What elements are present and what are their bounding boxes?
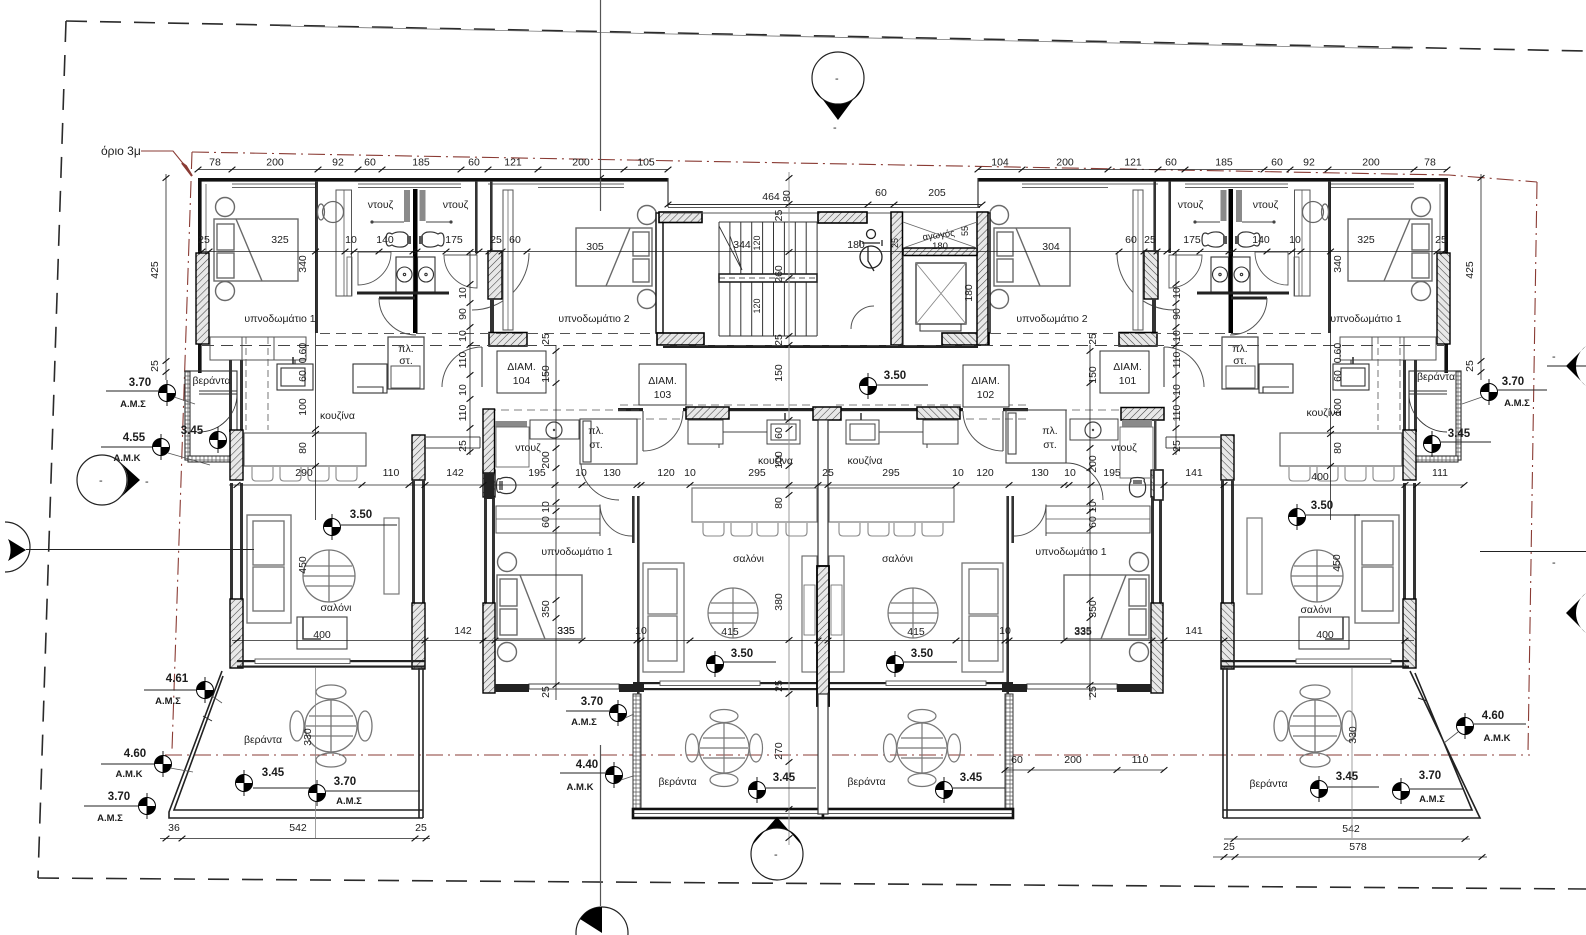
salon apt104 walls — [230, 483, 233, 663]
svg-text:-: - — [1552, 351, 1556, 363]
elevation markers — [159, 380, 176, 406]
svg-text:10: 10 — [952, 467, 964, 479]
center axis x=789 — [788, 172, 790, 845]
veranda apt101 trapezoid — [1223, 668, 1480, 818]
apt103 kitchen counters — [688, 420, 800, 448]
svg-text:25: 25 — [773, 210, 785, 222]
DIAM102 box — [963, 365, 1009, 407]
svg-text:121: 121 — [1124, 157, 1142, 169]
party wall between 103/102 — [813, 407, 841, 420]
pedestal basin — [318, 202, 344, 223]
svg-text:130: 130 — [603, 467, 621, 479]
svg-text:185: 185 — [412, 157, 430, 169]
svg-text:141: 141 — [1185, 625, 1203, 637]
svg-text:3.50: 3.50 — [911, 648, 933, 660]
svg-text:πλ.: πλ. — [398, 343, 413, 355]
bedroom2 closet — [503, 190, 513, 330]
svg-text:Α.Μ.Κ: Α.Μ.Κ — [116, 769, 143, 780]
counter right of pier — [425, 437, 480, 448]
apt103 bedroom window bottom — [529, 684, 619, 689]
hatched pier left wall — [196, 253, 209, 344]
stair direction line — [719, 226, 742, 270]
svg-text:υπνοδωμάτιο 1: υπνοδωμάτιο 1 — [244, 313, 315, 325]
DIAM103 box — [639, 364, 686, 405]
svg-text:344: 344 — [733, 239, 751, 251]
left wall lower w/ window — [229, 360, 232, 432]
round table apt104 — [303, 550, 355, 602]
svg-text:120: 120 — [976, 467, 994, 479]
svg-text:304: 304 — [1042, 241, 1060, 253]
svg-text:60: 60 — [773, 427, 785, 439]
right edge arrows — [1547, 365, 1586, 367]
svg-text:όριο 3μ: όριο 3μ — [101, 144, 141, 158]
interior dim line y=251.5 — [198, 251, 1448, 253]
washing closet pl.st. — [388, 337, 424, 389]
elevator car — [916, 263, 966, 324]
corridor hatched bar — [489, 333, 527, 347]
svg-text:10: 10 — [1171, 384, 1183, 396]
svg-text:σαλόνι: σαλόνι — [1300, 604, 1332, 616]
svg-text:60: 60 — [1271, 157, 1283, 169]
top section circle — [812, 52, 864, 104]
svg-text:150: 150 — [1087, 366, 1099, 384]
lobby door arc — [851, 306, 874, 329]
svg-text:10: 10 — [457, 384, 469, 396]
svg-text:υπνοδωμάτιο 2: υπνοδωμάτιο 2 — [1016, 313, 1087, 325]
svg-text:25: 25 — [1223, 841, 1235, 853]
svg-text:290: 290 — [295, 467, 313, 479]
apt103 entry door — [642, 411, 644, 451]
tv stand 400 — [297, 617, 347, 649]
dashed upper-cabinet lines kitchen — [246, 337, 268, 430]
svg-text:Α.Μ.Σ: Α.Μ.Σ — [1504, 398, 1530, 409]
armchair right — [384, 518, 399, 594]
svg-text:25: 25 — [1087, 686, 1099, 698]
middle veranda table — [686, 710, 763, 787]
stairs — [719, 222, 817, 336]
svg-text:200: 200 — [1087, 455, 1099, 473]
svg-text:στ.: στ. — [589, 439, 603, 451]
svg-text:ντουζ: ντουζ — [1111, 442, 1137, 454]
svg-text:185: 185 — [1215, 157, 1233, 169]
svg-text:Α.Μ.Σ: Α.Μ.Σ — [336, 796, 362, 807]
apt103 salon: dining table — [692, 488, 817, 522]
svg-text:στ.: στ. — [1233, 355, 1247, 367]
svg-text:κουζίνα: κουζίνα — [320, 410, 355, 422]
svg-text:βεράντα: βεράντα — [658, 776, 696, 788]
svg-text:130: 130 — [1031, 467, 1049, 479]
shower apt102 — [1122, 420, 1152, 427]
west veranda — [185, 371, 237, 462]
svg-text:325: 325 — [271, 234, 289, 246]
apt103 bed — [497, 553, 582, 662]
svg-text:400: 400 — [1316, 629, 1334, 641]
svg-text:92: 92 — [332, 157, 344, 169]
svg-text:55: 55 — [960, 226, 970, 236]
hatched pier A — [412, 435, 425, 480]
svg-text:330: 330 — [1347, 726, 1359, 744]
svg-text:25: 25 — [198, 234, 210, 246]
svg-text:25: 25 — [1464, 360, 1476, 372]
svg-text:140: 140 — [1252, 234, 1270, 246]
svg-text:200: 200 — [540, 451, 552, 469]
svg-text:3.45: 3.45 — [960, 772, 983, 784]
svg-text:ντουζ: ντουζ — [515, 442, 541, 454]
svg-text:60: 60 — [468, 157, 480, 169]
svg-text:450: 450 — [1331, 554, 1343, 572]
svg-text:κουζίνα: κουζίνα — [848, 455, 883, 467]
svg-text:110: 110 — [457, 351, 469, 368]
svg-text:103: 103 — [654, 389, 672, 401]
vertical dim x=1176 — [1175, 252, 1177, 455]
DIAM104 box — [497, 351, 546, 393]
svg-text:110: 110 — [1171, 351, 1183, 368]
core top-left hatched block — [659, 212, 702, 223]
wall right of WC apt102 — [1154, 470, 1163, 500]
svg-text:25: 25 — [540, 333, 552, 345]
svg-text:60: 60 — [1125, 234, 1137, 246]
svg-text:578: 578 — [1349, 841, 1367, 853]
svg-text:3.45: 3.45 — [262, 767, 285, 779]
svg-text:150: 150 — [773, 364, 785, 382]
apt103 round table — [708, 588, 758, 638]
svg-text:200: 200 — [1056, 157, 1074, 169]
top dimension line — [198, 169, 668, 171]
svg-text:πλ.: πλ. — [588, 425, 603, 437]
shower apt103 — [495, 421, 527, 427]
svg-text:295: 295 — [882, 467, 900, 479]
svg-text:10: 10 — [1171, 330, 1183, 342]
svg-text:450: 450 — [297, 556, 309, 574]
svg-text:200: 200 — [572, 157, 590, 169]
vertical axis x=600 top — [600, 0, 602, 211]
svg-text:βεράντα: βεράντα — [1417, 371, 1455, 383]
bottom dims right veranda — [1224, 838, 1470, 840]
svg-text:101: 101 — [1119, 375, 1137, 387]
svg-text:3.70: 3.70 — [334, 776, 356, 788]
svg-text:στ.: στ. — [399, 355, 413, 367]
svg-text:80: 80 — [781, 190, 793, 202]
svg-text:25: 25 — [1144, 234, 1156, 246]
corridor cabinets row — [210, 337, 306, 360]
svg-text:10: 10 — [1064, 467, 1076, 479]
svg-text:υπνοδωμάτιο 1: υπνοδωμάτιο 1 — [541, 546, 612, 558]
bedroom1 right wall — [315, 181, 318, 333]
svg-text:60: 60 — [297, 370, 309, 382]
svg-text:121: 121 — [504, 157, 522, 169]
svg-text:κουζίνα: κουζίνα — [1307, 407, 1342, 419]
core top edge line — [668, 205, 980, 208]
svg-text:25: 25 — [1087, 333, 1099, 345]
svg-text:25: 25 — [773, 334, 785, 346]
entry door apt104 — [481, 347, 483, 387]
svg-text:σαλόνι: σαλόνι — [882, 553, 914, 565]
svg-text:3.45: 3.45 — [773, 772, 796, 784]
svg-text:60: 60 — [540, 516, 552, 528]
center vertical dim x=789 labels — [773, 190, 793, 760]
svg-text:10: 10 — [1171, 287, 1183, 299]
svg-text:-: - — [774, 849, 778, 861]
toilet apt103 — [497, 477, 517, 493]
svg-text:110: 110 — [383, 467, 400, 479]
svg-text:400: 400 — [313, 629, 331, 641]
svg-text:3.45: 3.45 — [1448, 428, 1471, 440]
svg-text:305: 305 — [586, 241, 604, 253]
bathroom door arcs — [358, 252, 529, 335]
svg-text:-: - — [835, 73, 839, 85]
svg-text:100: 100 — [297, 398, 309, 416]
corridor dashed lines — [202, 345, 1444, 347]
svg-text:111: 111 — [1432, 467, 1448, 479]
svg-text:-: - — [99, 475, 103, 487]
svg-text:πλ.: πλ. — [1042, 425, 1057, 437]
svg-text:25: 25 — [1171, 440, 1183, 452]
core bottom-left hatched block — [657, 333, 704, 345]
svg-text:10: 10 — [457, 287, 469, 299]
bottom middle section circle — [751, 828, 803, 880]
svg-text:10: 10 — [575, 467, 587, 479]
svg-text:340: 340 — [297, 255, 309, 273]
svg-text:0.60: 0.60 — [1332, 343, 1344, 364]
svg-text:4.60: 4.60 — [1482, 710, 1504, 722]
bathroom bottom walls — [357, 292, 449, 295]
bedroom2 bed 305 — [576, 206, 657, 309]
svg-text:25: 25 — [822, 467, 834, 479]
svg-text:25: 25 — [415, 822, 427, 834]
sofa apt104 — [247, 515, 291, 623]
svg-text:3.50: 3.50 — [884, 370, 906, 382]
svg-text:10: 10 — [1289, 234, 1301, 246]
dim line y=485 — [229, 484, 1464, 486]
svg-text:142: 142 — [446, 467, 464, 479]
svg-text:ντουζ: ντουζ — [443, 199, 469, 211]
salon apt104 bottom wall w/ windows — [237, 660, 425, 662]
bottom dim left veranda — [160, 838, 430, 840]
svg-text:415: 415 — [907, 626, 925, 638]
svg-text:120: 120 — [752, 235, 762, 250]
svg-text:-: - — [145, 476, 149, 488]
svg-text:3.70: 3.70 — [581, 696, 603, 708]
svg-text:Α.Μ.Σ: Α.Μ.Σ — [155, 696, 181, 707]
svg-text:3.50: 3.50 — [1311, 500, 1333, 512]
svg-text:150: 150 — [540, 365, 552, 383]
svg-text:υπνοδωμάτιο 2: υπνοδωμάτιο 2 — [558, 313, 629, 325]
svg-text:25: 25 — [1435, 234, 1447, 246]
svg-text:πλ.: πλ. — [1232, 343, 1247, 355]
svg-text:110: 110 — [1171, 404, 1183, 421]
toilet apt102 (vertical) — [1129, 478, 1145, 498]
svg-text:60: 60 — [1087, 516, 1099, 528]
central bathroom partition (black) — [413, 189, 418, 333]
svg-text:3.50: 3.50 — [350, 509, 372, 521]
svg-text:260: 260 — [773, 265, 785, 283]
left outer wall — [198, 178, 202, 373]
svg-text:σαλόνι: σαλόνι — [733, 553, 765, 565]
bedroom divider wall + door — [637, 496, 640, 694]
svg-text:425: 425 — [1464, 261, 1476, 279]
svg-text:60: 60 — [1165, 157, 1177, 169]
vertical axis x=600 bottom + circle — [600, 745, 602, 906]
core bottom wall — [663, 345, 978, 348]
svg-text:80: 80 — [1332, 442, 1344, 454]
svg-text:140: 140 — [376, 234, 394, 246]
svg-text:25: 25 — [890, 238, 900, 248]
svg-text:Α.Μ.Σ: Α.Μ.Σ — [120, 399, 146, 410]
svg-text:400: 400 — [1311, 471, 1329, 483]
toilets — [386, 232, 444, 247]
svg-text:542: 542 — [289, 822, 307, 834]
svg-text:Α.Μ.Σ: Α.Μ.Σ — [571, 717, 597, 728]
svg-text:295: 295 — [748, 467, 766, 479]
svg-text:80: 80 — [773, 497, 785, 509]
svg-text:3.70: 3.70 — [1502, 376, 1524, 388]
svg-text:60: 60 — [875, 187, 887, 199]
svg-text:205: 205 — [928, 187, 946, 199]
svg-text:120: 120 — [752, 298, 762, 313]
basin counter apt103 — [530, 420, 579, 439]
bathroom right wall + hatch — [475, 181, 478, 253]
svg-text:92: 92 — [1303, 157, 1315, 169]
wheelchair symbol — [860, 230, 882, 272]
svg-text:330: 330 — [302, 728, 314, 746]
vertical dim x=556 — [555, 345, 557, 700]
svg-text:110: 110 — [1132, 754, 1149, 766]
mid veranda right chain — [1005, 769, 1164, 771]
svg-text:200: 200 — [1362, 157, 1380, 169]
svg-text:350: 350 — [1087, 600, 1099, 618]
svg-text:464: 464 — [762, 191, 780, 203]
vertical dim x=1090 — [1089, 345, 1091, 700]
svg-text:κουζίνα: κουζίνα — [758, 455, 793, 467]
svg-text:ντουζ: ντουζ — [1253, 199, 1279, 211]
svg-text:25: 25 — [540, 686, 552, 698]
pl.st. apt102 — [1006, 410, 1103, 500]
svg-text:175: 175 — [445, 234, 463, 246]
svg-text:4.40: 4.40 — [576, 759, 598, 771]
svg-text:60: 60 — [1332, 370, 1344, 382]
svg-text:325: 325 — [1357, 234, 1375, 246]
svg-text:200: 200 — [1064, 754, 1082, 766]
orio 3m leader — [141, 151, 190, 172]
svg-text:Α.Μ.Κ: Α.Μ.Κ — [114, 453, 141, 464]
svg-text:25: 25 — [457, 440, 469, 452]
veranda table+chairs — [290, 685, 372, 767]
svg-text:90: 90 — [457, 308, 469, 320]
svg-text:60: 60 — [364, 157, 376, 169]
svg-text:141: 141 — [1185, 467, 1203, 479]
veranda apt104 trapezoid — [169, 668, 423, 818]
svg-text:3.45: 3.45 — [181, 425, 204, 437]
svg-text:60: 60 — [509, 234, 521, 246]
svg-text:4.60: 4.60 — [124, 748, 146, 760]
svg-text:80: 80 — [297, 442, 309, 454]
elevator shaft walls — [891, 212, 903, 345]
bed 325 bedroom1 — [214, 198, 298, 301]
core top dim — [668, 204, 982, 206]
svg-text:200: 200 — [266, 157, 284, 169]
svg-text:180: 180 — [963, 284, 975, 302]
svg-text:ντουζ: ντουζ — [368, 199, 394, 211]
svg-text:Α.Μ.Σ: Α.Μ.Σ — [97, 813, 123, 824]
apt103 bedroom closet — [496, 506, 600, 533]
agogos duct X — [903, 222, 977, 248]
kitchen island + chairs — [244, 433, 366, 466]
svg-text:542: 542 — [1342, 823, 1360, 835]
svg-text:3.70: 3.70 — [129, 377, 151, 389]
svg-text:175: 175 — [1183, 234, 1201, 246]
svg-text:Α.Μ.Κ: Α.Μ.Κ — [567, 782, 594, 793]
svg-text:10: 10 — [457, 330, 469, 342]
svg-text:104: 104 — [991, 157, 1009, 169]
svg-text:0.60: 0.60 — [297, 343, 309, 364]
closet between bedroom1 and shower — [336, 190, 352, 296]
svg-text:-: - — [1552, 557, 1556, 569]
svg-text:415: 415 — [721, 626, 739, 638]
red regulation dash-dot lines — [165, 152, 1537, 755]
svg-text:βεράντα: βεράντα — [847, 776, 885, 788]
svg-text:335: 335 — [1074, 626, 1092, 638]
svg-text:-: - — [833, 122, 837, 134]
svg-text:90: 90 — [1171, 308, 1183, 320]
window sill lines top — [232, 184, 624, 188]
svg-text:3.70: 3.70 — [1419, 770, 1441, 782]
apt103 sofa — [643, 563, 684, 672]
svg-text:10: 10 — [345, 234, 357, 246]
svg-text:ΔΙΑΜ.: ΔΙΑΜ. — [507, 361, 536, 373]
bedroom2/core wall — [656, 213, 663, 333]
svg-text:78: 78 — [209, 157, 221, 169]
svg-text:10: 10 — [1087, 501, 1099, 513]
right vertical dim — [1480, 174, 1482, 380]
svg-text:ΔΙΑΜ.: ΔΙΑΜ. — [1113, 361, 1142, 373]
svg-text:340: 340 — [1332, 255, 1344, 273]
svg-text:ντουζ: ντουζ — [1178, 199, 1204, 211]
left edge section arrow lower — [5, 522, 30, 572]
vanities — [396, 257, 435, 292]
salon/veranda wall apt103 — [633, 682, 817, 684]
svg-text:3.70: 3.70 — [108, 791, 130, 803]
svg-text:βεράντα: βεράντα — [192, 375, 230, 387]
vertical dim x=315.5 — [315, 183, 317, 520]
svg-text:25: 25 — [490, 234, 502, 246]
svg-text:36: 36 — [168, 822, 180, 834]
svg-text:σαλόνι: σαλόνι — [320, 602, 352, 614]
svg-text:βεράντα: βεράντα — [244, 734, 282, 746]
svg-text:βεράντα: βεράντα — [1249, 778, 1287, 790]
svg-text:Α.Μ.Κ: Α.Μ.Κ — [1484, 733, 1511, 744]
svg-text:25: 25 — [149, 360, 161, 372]
vertical dim x=1330.5 — [1330, 183, 1332, 520]
svg-text:105: 105 — [637, 157, 655, 169]
svg-text:στ.: στ. — [1043, 439, 1057, 451]
central pier tall apt103 — [483, 409, 495, 473]
outer top wall left — [198, 178, 668, 182]
apt103 bedroom walls — [483, 470, 495, 497]
svg-text:ΔΙΑΜ.: ΔΙΑΜ. — [648, 375, 677, 387]
svg-text:4.55: 4.55 — [123, 432, 146, 444]
svg-text:10: 10 — [684, 467, 696, 479]
svg-text:180: 180 — [932, 241, 948, 252]
svg-text:Α.Μ.Σ: Α.Μ.Σ — [1419, 794, 1445, 805]
svg-text:10: 10 — [635, 625, 647, 637]
basin counter apt102 — [1070, 419, 1118, 440]
apt103 tv unit near party wall — [802, 556, 817, 672]
svg-text:104: 104 — [513, 375, 531, 387]
svg-text:425: 425 — [149, 261, 161, 279]
corridor bottom wall — [618, 408, 643, 411]
svg-text:78: 78 — [1424, 157, 1436, 169]
bedroom2 left wall lower — [490, 181, 493, 251]
